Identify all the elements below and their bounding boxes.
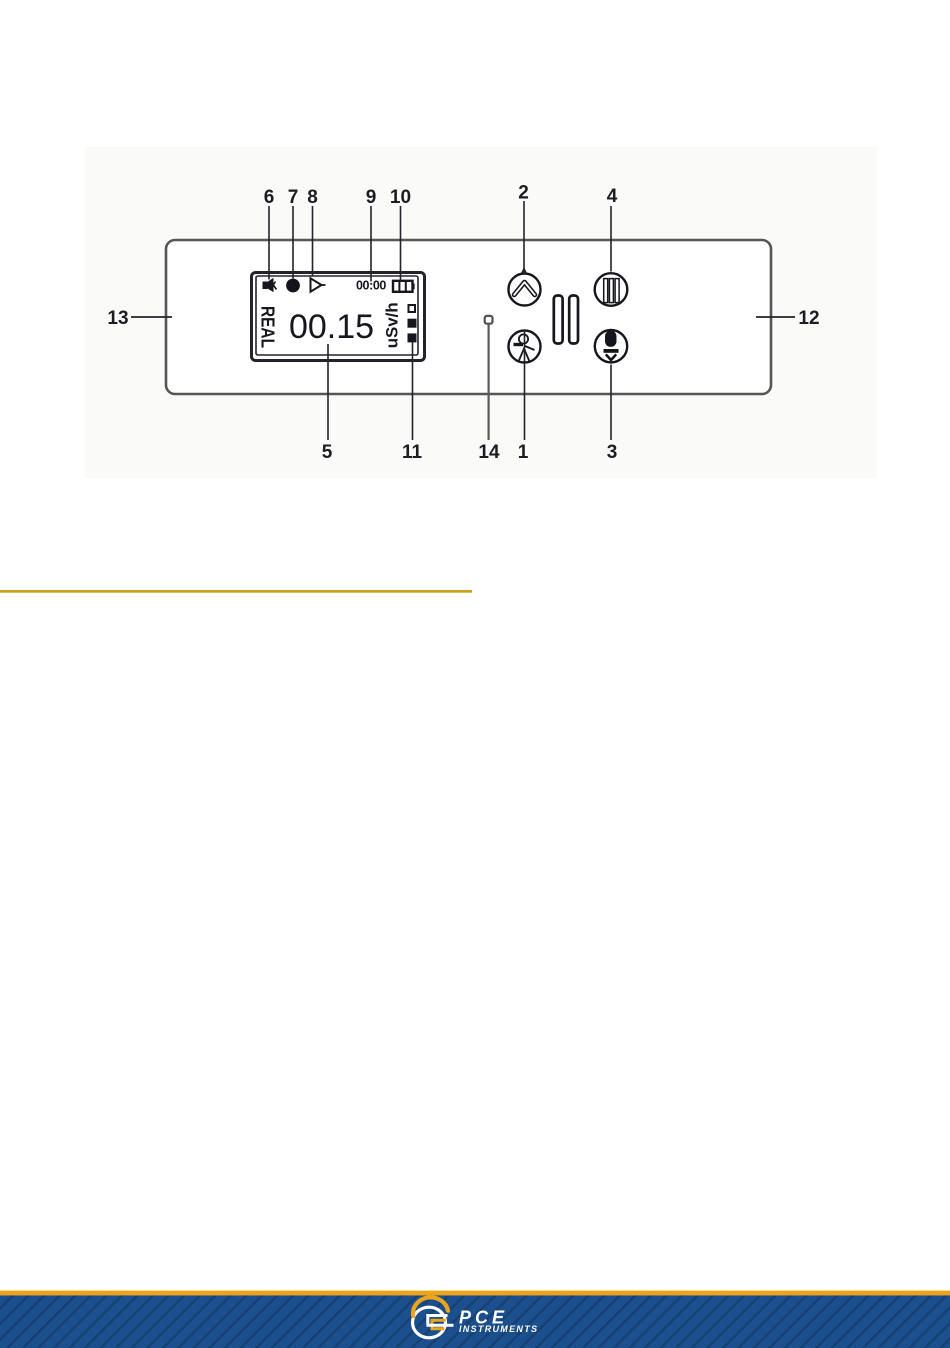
- callout line 6: [268, 206, 270, 280]
- button 4 (three bars): [595, 273, 628, 306]
- callout line 3: [610, 365, 612, 441]
- button 3 (microphone icon): [595, 330, 627, 362]
- callout line 14: [488, 325, 490, 441]
- svg-text:10: 10: [390, 187, 411, 208]
- callout line 5: [327, 344, 329, 440]
- hole 14: [485, 316, 493, 324]
- svg-text:uSv/h: uSv/h: [383, 302, 402, 348]
- play triangle: [311, 278, 326, 291]
- callout line 7: [292, 206, 294, 279]
- callout line 1: [524, 330, 526, 440]
- scan background: [85, 147, 877, 478]
- LCD display bezel: [252, 273, 425, 361]
- button 1 (figure icon): [509, 331, 541, 363]
- callout line 13: [131, 316, 172, 318]
- svg-text:8: 8: [307, 187, 318, 208]
- footer blue hatched band: [0, 1295, 950, 1348]
- svg-text:3: 3: [607, 442, 618, 463]
- svg-text:4: 4: [607, 186, 618, 207]
- battery icon: [393, 280, 415, 292]
- svg-text:5: 5: [322, 442, 333, 463]
- record dot: [286, 279, 300, 293]
- svg-text:7: 7: [288, 187, 299, 208]
- speaker mute icon: [263, 278, 277, 292]
- speaker slot right: [569, 296, 578, 344]
- callout line 12: [756, 316, 795, 318]
- svg-text:12: 12: [798, 308, 819, 329]
- svg-text:2: 2: [518, 183, 529, 204]
- svg-text:00.15: 00.15: [289, 308, 374, 346]
- device body outline: [166, 240, 771, 394]
- callout line 4: [610, 206, 612, 272]
- svg-text:9: 9: [366, 187, 377, 208]
- bar indicator squares: [408, 305, 417, 342]
- callout line 8: [312, 206, 314, 277]
- svg-text:REAL: REAL: [258, 306, 278, 348]
- svg-text:14: 14: [478, 442, 500, 463]
- callout line 9: [370, 206, 372, 282]
- callout line 11: [412, 342, 414, 440]
- PCE logo glyph: [427, 1316, 454, 1329]
- button 2 (up chevron): [509, 274, 541, 306]
- PCE logo ring: [413, 1297, 449, 1337]
- svg-text:1: 1: [518, 442, 529, 463]
- svg-text:13: 13: [107, 308, 128, 329]
- speaker slot left: [554, 296, 563, 344]
- svg-text:6: 6: [264, 187, 275, 208]
- orange separator line: [0, 590, 472, 593]
- footer yellow band: [0, 1291, 950, 1296]
- callout line 2: [521, 201, 527, 273]
- svg-text:11: 11: [402, 442, 423, 463]
- callout line 10: [400, 206, 402, 280]
- svg-text:INSTRUMENTS: INSTRUMENTS: [459, 1324, 538, 1334]
